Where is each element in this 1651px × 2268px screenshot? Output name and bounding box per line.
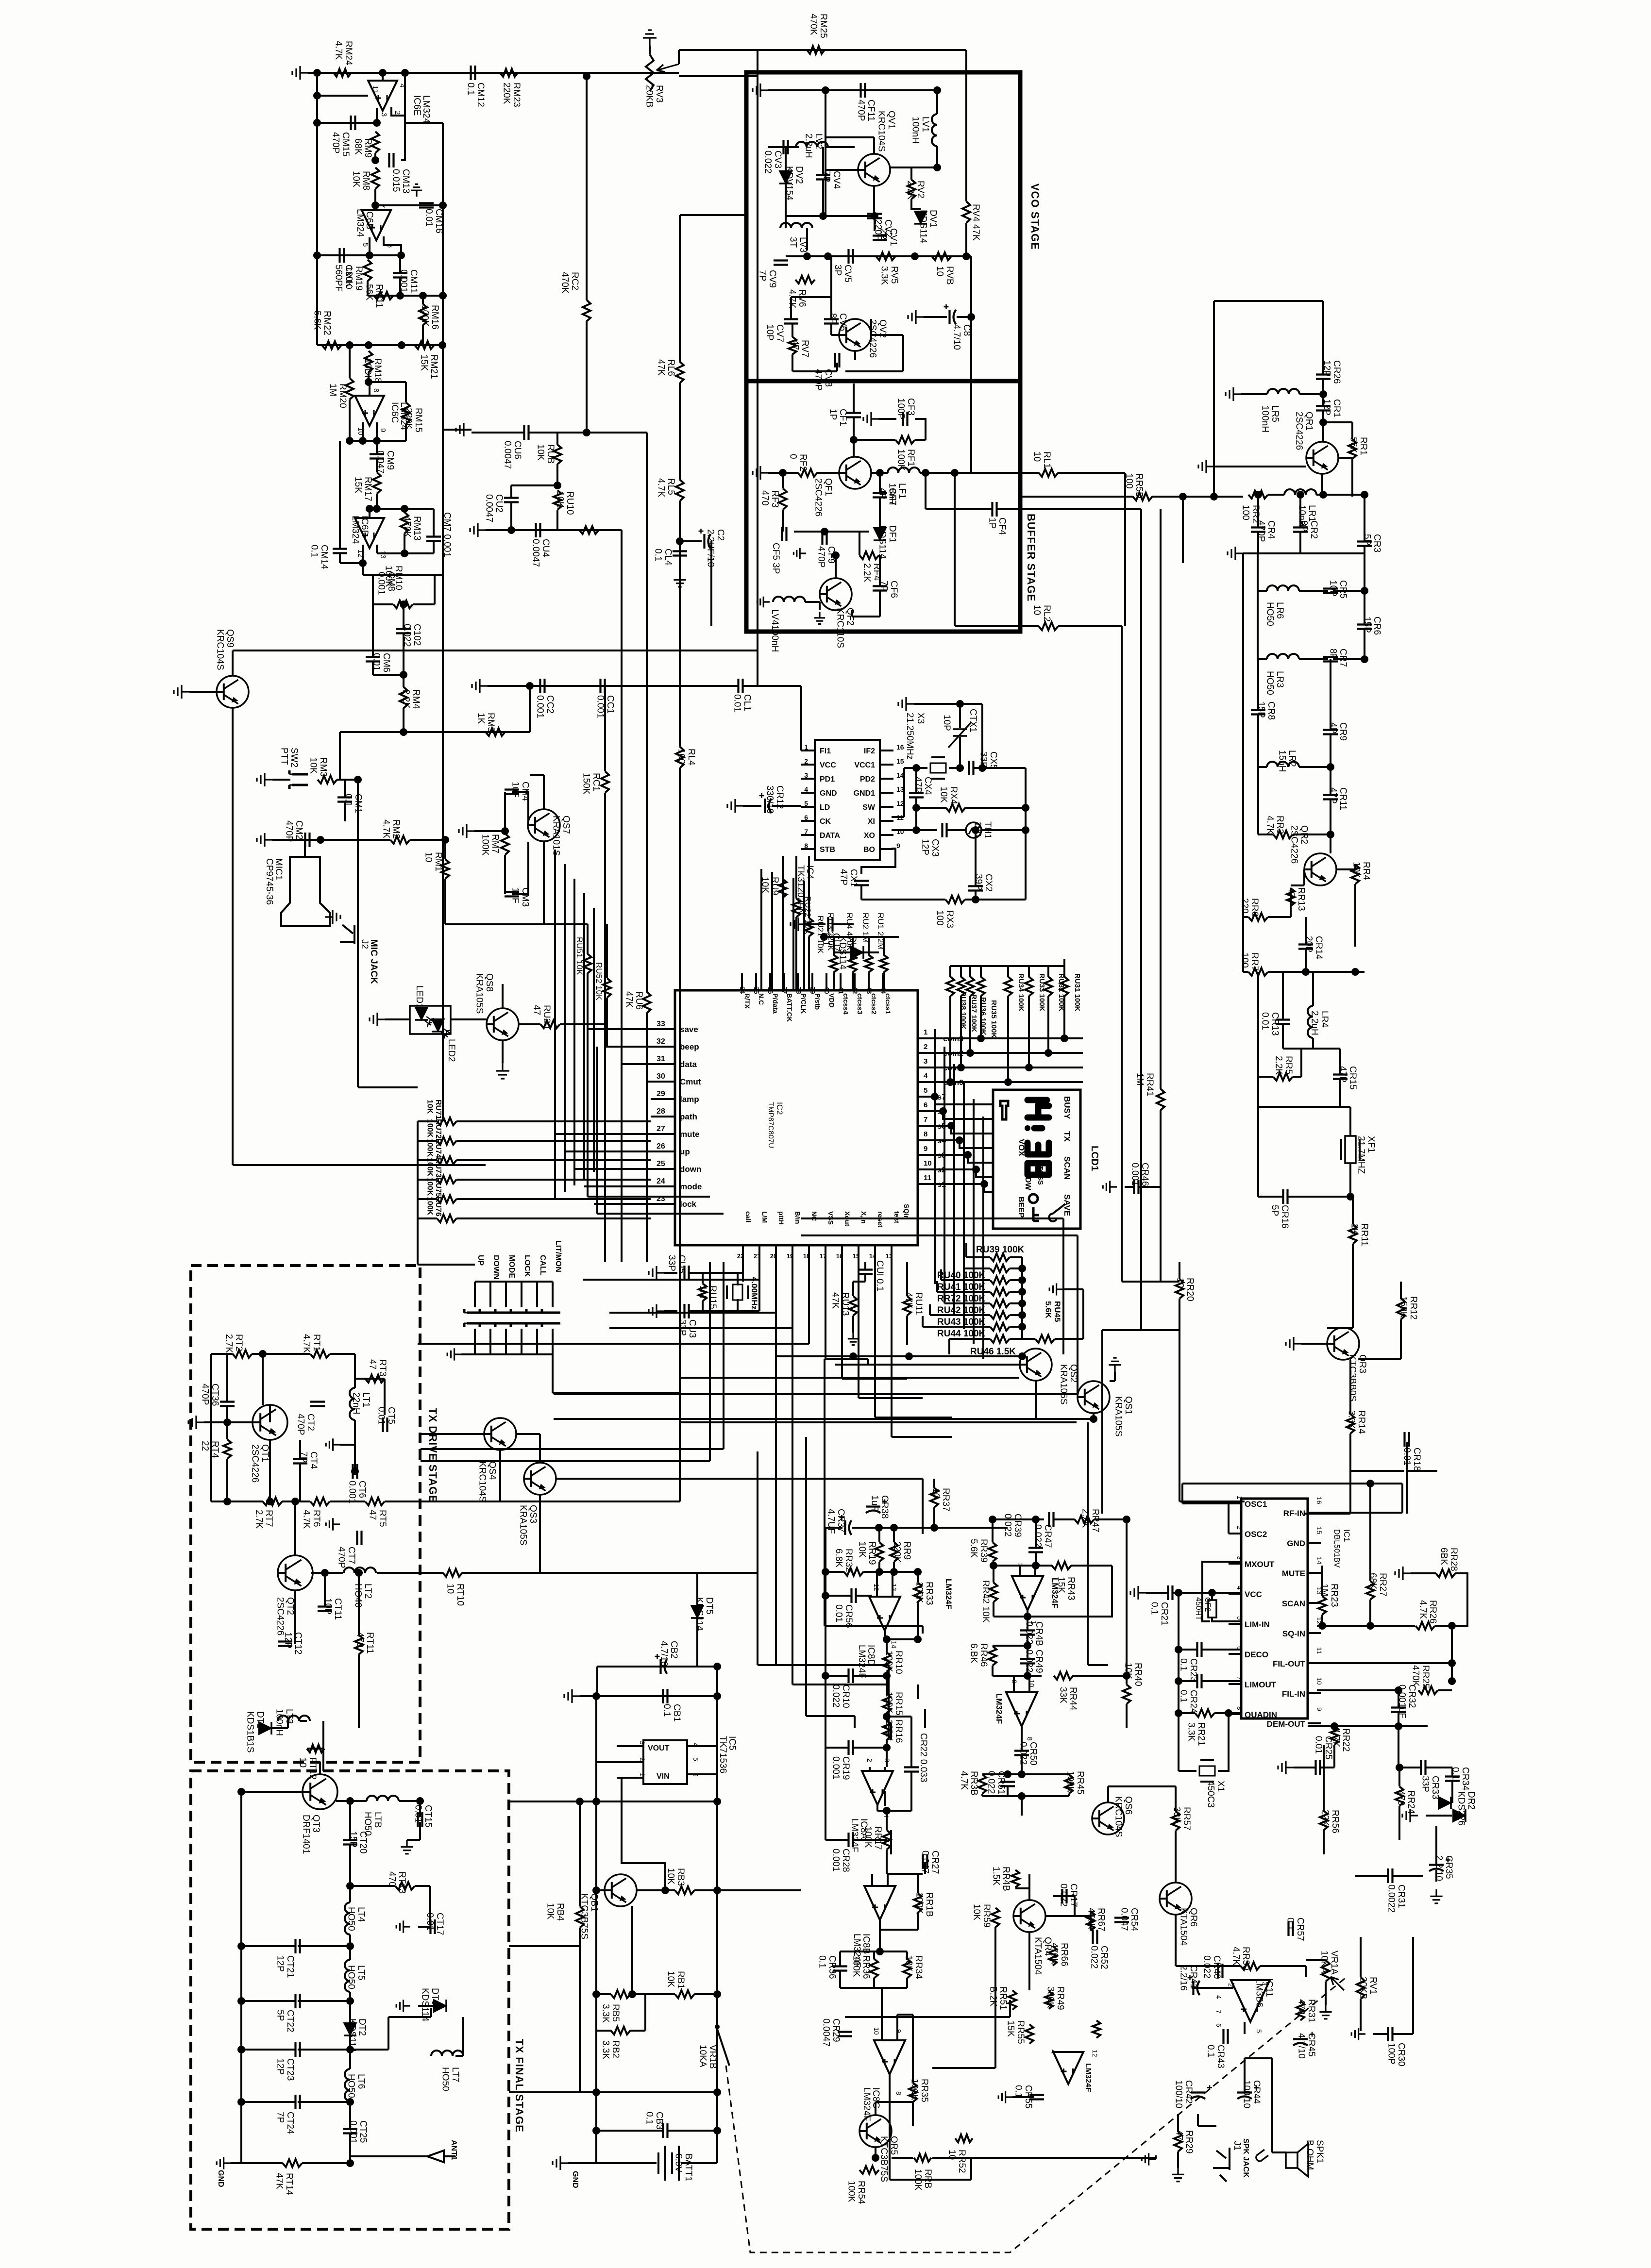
wire xyxy=(519,1023,540,1025)
label LM324F xyxy=(857,1645,867,1679)
label CV3 xyxy=(762,150,783,174)
wire xyxy=(263,1353,310,1355)
label 4 xyxy=(1236,1586,1244,1590)
resistor RR5 xyxy=(1273,1073,1293,1081)
wire xyxy=(419,1822,421,1840)
junction xyxy=(883,1744,891,1751)
capacitor CT24 xyxy=(296,2095,300,2109)
svg-text:CX147P: CX147P xyxy=(838,869,859,887)
inductor LT3 xyxy=(278,1716,310,1721)
junction xyxy=(1448,1659,1456,1667)
wire xyxy=(556,433,558,445)
wire xyxy=(1243,916,1248,918)
wire xyxy=(1321,474,1323,495)
svg-text:MXOUT: MXOUT xyxy=(1245,1560,1275,1569)
resistor RL2 xyxy=(1039,622,1058,630)
wire xyxy=(853,417,855,456)
svg-text:CR520.022: CR520.022 xyxy=(1089,1946,1109,1969)
label TX DRIVE STAGE xyxy=(427,1408,439,1503)
svg-text:RU33 100K: RU33 100K xyxy=(1038,973,1046,1012)
junction xyxy=(1018,1311,1026,1319)
wire xyxy=(992,1519,994,1542)
svg-text:DEM-OUT: DEM-OUT xyxy=(1267,1719,1306,1729)
junction xyxy=(346,2046,354,2053)
label LM324F xyxy=(861,2087,872,2121)
label LM324F xyxy=(1084,2063,1092,2092)
ground xyxy=(753,466,768,480)
junction xyxy=(972,826,979,834)
pin number 23 xyxy=(657,1195,665,1203)
wire xyxy=(241,2049,295,2051)
label IC6E xyxy=(412,95,422,116)
label BUFFER STAGE xyxy=(1025,514,1037,601)
resistor RR14 xyxy=(1347,1414,1354,1434)
capacitor CR3 xyxy=(1357,542,1372,546)
wire xyxy=(1333,1725,1335,1727)
label LR6 xyxy=(1264,602,1285,626)
svg-text:3: 3 xyxy=(639,1741,646,1745)
capacitor CM11 xyxy=(393,273,407,278)
resistor RU39 xyxy=(990,1253,1010,1261)
label TX xyxy=(1062,1131,1072,1142)
wire xyxy=(825,1595,851,1597)
svg-text:13: 13 xyxy=(886,1252,893,1260)
label CALL xyxy=(539,1255,547,1276)
label RU71 xyxy=(426,1100,442,1119)
capacitor CR15 xyxy=(1333,1075,1348,1079)
resistor RT10 xyxy=(443,1569,462,1577)
junction xyxy=(912,804,920,812)
junction xyxy=(849,1352,857,1360)
resistor RF3 xyxy=(779,488,787,510)
IC2 pin up xyxy=(680,1147,690,1156)
label CF9 xyxy=(816,546,836,567)
label 9 xyxy=(1315,1707,1323,1711)
svg-text:P/stb: P/stb xyxy=(814,993,822,1010)
wire xyxy=(801,778,815,780)
wire xyxy=(910,1717,912,1767)
wire xyxy=(981,829,1026,831)
wire pin path xyxy=(651,1116,675,1117)
junction xyxy=(819,212,827,220)
wire xyxy=(912,2102,914,2126)
label IC8C xyxy=(871,2087,881,2108)
wire xyxy=(795,917,797,990)
IC4 pin VCC xyxy=(820,761,836,769)
label 1 xyxy=(639,1773,646,1777)
svg-text:41: 41 xyxy=(837,986,845,994)
capacitor CR7 xyxy=(1323,657,1338,662)
label CV8 xyxy=(813,369,833,390)
wire xyxy=(1229,1593,1241,1595)
svg-text:RL4100: RL4100 xyxy=(676,749,696,766)
resistor RX3 xyxy=(945,896,965,903)
IC4 pin number xyxy=(804,743,808,751)
wire xyxy=(825,90,826,216)
wire xyxy=(330,1501,365,1502)
junction xyxy=(931,1093,939,1101)
ground xyxy=(188,1416,204,1429)
svg-text:39: 39 xyxy=(809,986,817,994)
label IC2 xyxy=(775,1102,784,1115)
wire xyxy=(801,750,815,751)
wire xyxy=(1229,1713,1241,1715)
label 3 xyxy=(1261,1982,1269,1985)
wire xyxy=(906,1951,908,1959)
wire xyxy=(418,1140,437,1142)
label CM4 xyxy=(510,782,530,801)
label 7 xyxy=(924,1116,927,1124)
junction xyxy=(291,1498,299,1505)
svg-text:N.C: N.C xyxy=(758,993,765,1005)
label RR66 xyxy=(1049,1943,1069,1967)
resistor RM24 xyxy=(334,69,351,77)
wire xyxy=(1435,1870,1437,1882)
IC2 pin VSS xyxy=(827,1211,835,1225)
svg-text:11: 11 xyxy=(1315,1647,1323,1654)
wire xyxy=(1257,767,1259,834)
junction xyxy=(379,69,387,77)
ground xyxy=(564,1689,580,1703)
svg-text:7: 7 xyxy=(804,828,808,835)
capacitor CU4 xyxy=(536,523,540,537)
wire xyxy=(664,1310,677,1312)
junction xyxy=(912,826,920,834)
switch CALL xyxy=(526,1309,545,1327)
transistor QS2 xyxy=(1020,1349,1052,1381)
svg-text:LCD1: LCD1 xyxy=(1089,1146,1100,1171)
junction xyxy=(990,1562,997,1569)
resistor RUB xyxy=(554,445,561,464)
wire xyxy=(1398,1712,1399,1726)
pin number 29 xyxy=(657,1090,665,1098)
wire xyxy=(924,1862,926,1874)
label RR29 xyxy=(1174,2130,1194,2154)
wire xyxy=(1364,546,1365,591)
IC4 pin number xyxy=(896,743,904,751)
LCD battery icon xyxy=(1000,1101,1008,1119)
wire xyxy=(456,1120,651,1122)
IC2 pin X,in xyxy=(860,1211,868,1224)
wire xyxy=(879,1930,881,1951)
wire xyxy=(1257,1107,1259,1197)
wire xyxy=(1257,659,1259,710)
resistor RU40 xyxy=(990,1265,1010,1272)
wire xyxy=(560,1023,605,1025)
ground xyxy=(793,548,806,559)
wire xyxy=(893,1562,895,1572)
wire xyxy=(936,146,938,167)
IC2 pin ctcss4 xyxy=(842,993,850,1015)
wire xyxy=(897,2014,913,2016)
svg-text:P/CLK: P/CLK xyxy=(800,993,808,1014)
capacitor CR54 xyxy=(1114,1918,1129,1922)
wire xyxy=(596,1889,605,1891)
wire xyxy=(896,2015,898,2041)
wire xyxy=(1028,1676,1030,1693)
wire xyxy=(637,1889,675,1891)
wire xyxy=(1058,625,1122,627)
wire xyxy=(649,46,651,54)
wire xyxy=(1411,1572,1436,1574)
resistor RM25 xyxy=(807,46,825,54)
svg-text:CM110.001: CM110.001 xyxy=(398,269,419,293)
wire xyxy=(1349,1434,1351,1471)
wire xyxy=(461,1353,475,1355)
wire xyxy=(369,382,371,396)
wire left rail xyxy=(595,1696,597,2163)
label QR4 xyxy=(1032,1937,1053,1975)
svg-text:CR280.001: CR280.001 xyxy=(830,1849,851,1872)
label CTX1 xyxy=(968,709,978,733)
wire xyxy=(1202,1562,1241,1621)
resistor RR16 xyxy=(883,1720,891,1740)
wire xyxy=(1398,1806,1400,1840)
svg-text:9: 9 xyxy=(896,842,900,850)
wire xyxy=(871,1874,873,1886)
pin number 25 xyxy=(657,1160,665,1168)
wire xyxy=(916,807,946,809)
wire xyxy=(387,2017,389,2050)
svg-text:11: 11 xyxy=(371,85,379,93)
capacitor CX2 xyxy=(968,886,983,891)
capacitor CR34 xyxy=(1445,1777,1460,1781)
wire xyxy=(840,1951,907,1952)
wire xyxy=(1308,1632,1321,1634)
svg-text:RU42 100K: RU42 100K xyxy=(937,1305,986,1316)
svg-text:LM324F: LM324F xyxy=(1050,1578,1060,1608)
label 8 xyxy=(372,388,380,392)
capacitor CM9 xyxy=(370,454,384,459)
resistor RU33 xyxy=(1025,977,1033,996)
label DT2 xyxy=(347,2018,367,2052)
IC2 pin Xout xyxy=(843,1211,851,1226)
wire xyxy=(1179,1649,1197,1651)
wire xyxy=(1312,1038,1314,1049)
wire xyxy=(886,1850,888,1874)
IC1 pin OSC2 xyxy=(1245,1530,1267,1539)
label QF1 xyxy=(813,478,833,517)
svg-text:RB310K: RB310K xyxy=(665,1868,686,1886)
wire xyxy=(384,236,401,255)
wire xyxy=(362,563,364,575)
svg-text:CT50.01: CT50.01 xyxy=(376,1407,396,1425)
wire xyxy=(373,674,404,676)
label RM22 xyxy=(312,311,332,335)
svg-text:22: 22 xyxy=(737,1252,744,1260)
op-amp IC8E xyxy=(1012,1576,1043,1610)
svg-text:IC6E: IC6E xyxy=(412,95,422,116)
svg-text:STB: STB xyxy=(820,846,835,854)
svg-text:16: 16 xyxy=(896,743,904,751)
wire com1 xyxy=(919,1067,1083,1068)
label CM16 xyxy=(423,209,444,233)
wire xyxy=(777,1355,1022,1357)
label CT4 xyxy=(298,1451,319,1469)
ground xyxy=(649,1266,664,1280)
transistor QR6 xyxy=(1160,1883,1192,1915)
wire xyxy=(801,792,815,794)
label CR39 xyxy=(1002,1514,1023,1537)
junction xyxy=(1318,1622,1326,1630)
wire xyxy=(241,2101,295,2103)
wire xyxy=(863,951,879,953)
svg-text:TX: TX xyxy=(1062,1131,1072,1142)
svg-text:14: 14 xyxy=(890,1641,898,1649)
resistor RL5 xyxy=(676,480,684,501)
label 450HT xyxy=(1194,1597,1202,1620)
wire xyxy=(1393,2033,1413,2035)
wire xyxy=(1063,996,1065,1038)
wire xyxy=(917,1874,919,1893)
resistor RU21 xyxy=(805,918,813,936)
wire xyxy=(808,856,810,918)
junction xyxy=(876,469,884,477)
label CR22 0.033 xyxy=(918,1733,928,1782)
svg-text:NC: NC xyxy=(810,1211,818,1221)
wire xyxy=(1013,1676,1015,1693)
label CR14 xyxy=(1303,936,1324,960)
capacitor CR44 xyxy=(1237,2085,1259,2099)
ground xyxy=(674,573,686,587)
transistor QR3 xyxy=(1327,1328,1359,1360)
wire xyxy=(943,1293,945,1303)
wire xyxy=(917,1913,919,1930)
capacitor CR27 xyxy=(923,1854,927,1869)
svg-text:VR1A10KA: VR1A10KA xyxy=(1319,1951,1339,1975)
svg-text:RU73100K: RU73100K xyxy=(426,1158,442,1178)
inductor LT1 xyxy=(350,1388,355,1420)
junction xyxy=(313,92,321,100)
wire xyxy=(941,1279,990,1281)
label RU31 100K xyxy=(1073,973,1081,1012)
wire xyxy=(240,1792,242,2163)
label CX4 xyxy=(912,777,933,795)
label 5 xyxy=(1255,2029,1263,2033)
label LM324F xyxy=(1050,1578,1060,1608)
wire right rail xyxy=(716,1667,718,2163)
wire xyxy=(839,1971,841,1988)
wire xyxy=(836,363,838,371)
diode DV2 xyxy=(779,171,792,183)
svg-text:RB410K: RB410K xyxy=(545,1903,565,1921)
svg-text:RL54.7K: RL54.7K xyxy=(656,478,676,497)
wire xyxy=(1214,1712,1241,1714)
label RR55 xyxy=(1005,2020,1026,2044)
wire xyxy=(1312,972,1314,1006)
label 3 xyxy=(924,1057,927,1066)
wire xyxy=(418,1926,430,1928)
LED LED1 xyxy=(415,1007,428,1020)
svg-text:12: 12 xyxy=(356,550,365,558)
wire xyxy=(782,898,784,990)
wire xyxy=(317,95,368,97)
label RV4 47K xyxy=(971,204,981,241)
wire xyxy=(433,541,435,553)
inductor LT7 xyxy=(431,2051,463,2056)
resistor RR66 xyxy=(1049,1946,1057,1966)
label RR2 xyxy=(1240,505,1261,523)
svg-text:6: 6 xyxy=(924,1101,927,1109)
wire xyxy=(1020,472,1039,474)
capacitor CR48 xyxy=(1020,1631,1035,1635)
wire xyxy=(873,137,875,154)
wire xyxy=(586,321,588,433)
svg-text:SQin: SQin xyxy=(903,1204,910,1220)
junction xyxy=(439,292,447,300)
svg-text:5: 5 xyxy=(361,243,370,247)
wire xyxy=(768,89,937,91)
label DU1 xyxy=(837,936,858,970)
junction xyxy=(592,1798,600,1805)
IC4 pin number xyxy=(896,800,904,807)
wire xyxy=(1359,1358,1401,1360)
capacitor C2 xyxy=(699,529,711,549)
label CR40 xyxy=(1201,1955,1222,1979)
wire xyxy=(189,691,217,693)
label RU22 10K xyxy=(803,896,812,934)
label CR33 xyxy=(1420,1776,1440,1800)
label CF3 xyxy=(895,398,916,419)
junction xyxy=(371,201,379,209)
label SPK JACK xyxy=(1242,2138,1250,2178)
wire xyxy=(1010,1302,1022,1304)
wire xyxy=(922,1316,924,1327)
svg-text:FI1: FI1 xyxy=(820,747,831,755)
label RU11 xyxy=(903,1292,924,1315)
svg-text:CTX1: CTX1 xyxy=(968,709,978,733)
label CU2 xyxy=(484,494,504,522)
ground xyxy=(470,523,486,537)
junction xyxy=(1022,804,1029,812)
wire xyxy=(349,1801,351,1840)
IC4 pin number xyxy=(896,842,900,850)
label RR3 xyxy=(1264,816,1285,834)
wire xyxy=(825,1748,826,1840)
wire xyxy=(374,189,376,210)
label CR4 xyxy=(1256,520,1276,542)
wire xyxy=(687,1773,717,1775)
wire xyxy=(1288,1196,1350,1198)
label CR6 xyxy=(1362,617,1382,635)
label J2 xyxy=(359,939,370,949)
wire xyxy=(462,2017,464,2056)
wire xyxy=(1308,1602,1321,1604)
IC2 pin down xyxy=(680,1165,701,1174)
wire xyxy=(330,1353,355,1355)
wire gnd rail xyxy=(1243,552,1365,554)
svg-text:CX447P: CX447P xyxy=(912,777,933,795)
wire xyxy=(298,2049,350,2051)
wire xyxy=(969,996,971,1053)
wire xyxy=(1323,421,1352,423)
IC1 pin DECO xyxy=(1245,1650,1268,1659)
svg-text:IC2: IC2 xyxy=(775,1102,784,1115)
wire xyxy=(965,807,1026,809)
wire bank feed xyxy=(950,965,1064,967)
ground xyxy=(1226,387,1241,401)
wire xyxy=(646,433,648,992)
wire xyxy=(349,400,351,441)
svg-text:RR33100K: RR33100K xyxy=(914,1582,934,1605)
junction xyxy=(713,1692,721,1700)
wire pin 42 xyxy=(854,973,856,990)
wire xyxy=(456,1198,651,1200)
svg-text:2: 2 xyxy=(1236,1526,1244,1530)
ground xyxy=(1278,1761,1294,1774)
wire xyxy=(1320,1767,1334,1768)
resistor RR55 xyxy=(1026,2024,1033,2044)
